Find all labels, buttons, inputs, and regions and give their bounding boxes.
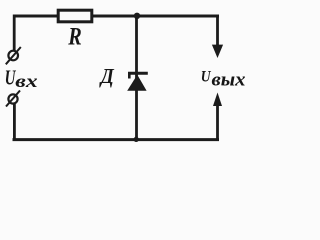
input terminal upper (circle with slash): [6, 47, 21, 64]
output arrow top (pointing down): [212, 15, 223, 59]
resistor R body: [58, 10, 92, 22]
svg-text:R: R: [67, 23, 81, 50]
wire left vertical upper (corner to input terminal): [13, 15, 16, 51]
svg-text:Uвх: Uвх: [5, 66, 38, 92]
svg-text:Uвых: Uвых: [201, 68, 246, 90]
junction node bottom: [134, 137, 139, 142]
junction node top: [134, 13, 140, 19]
output arrow bottom (pointing up): [213, 93, 222, 142]
wire top horizontal, left corner to resistor: [14, 15, 59, 18]
zener diode Д (cathode bar with bend, anode triangle): [127, 73, 148, 91]
wire bottom horizontal: [13, 138, 220, 141]
wire middle vertical (diode branch): [135, 15, 138, 142]
wire left vertical lower (input terminal to bottom corner): [13, 104, 16, 141]
input terminal lower (circle with slash): [6, 91, 20, 107]
wire top horizontal, resistor to top-right corner: [92, 15, 219, 18]
svg-text:Д: Д: [99, 66, 115, 88]
